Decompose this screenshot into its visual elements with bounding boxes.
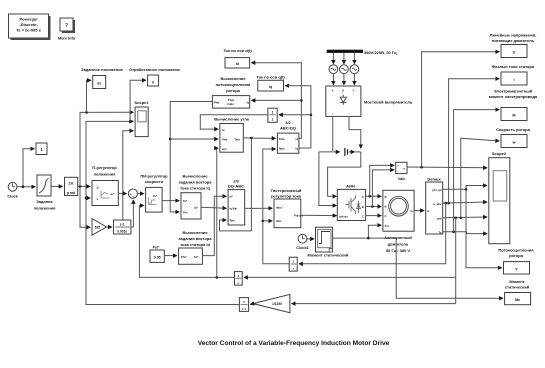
svg-text:iabc: iabc (276, 219, 282, 223)
svg-text:B: B (342, 90, 344, 93)
svg-text:скорости: скорости (145, 179, 164, 184)
svg-text:Момент: Момент (509, 279, 524, 284)
svg-text:wm: wm (221, 147, 227, 151)
svg-text:ПИ-регулятор: ПИ-регулятор (140, 174, 168, 179)
svg-text:w: w (512, 141, 516, 145)
svg-text:Mc: Mc (515, 298, 520, 302)
svg-text:Demux: Demux (427, 176, 441, 181)
svg-text:П-регулятор: П-регулятор (92, 165, 117, 170)
svg-text:Scope2: Scope2 (492, 151, 507, 156)
svg-text:Потокосцепления: Потокосцепления (498, 248, 534, 253)
svg-text:0.001s: 0.001s (117, 229, 127, 233)
svg-text:A: A (332, 90, 334, 93)
svg-text:1/1250: 1/1250 (272, 302, 282, 306)
svg-text:pulses: pulses (339, 215, 348, 219)
svg-text:Асинхронный: Асинхронный (384, 235, 412, 240)
svg-text:статический: статический (505, 285, 530, 290)
svg-text:Мостовой выпрямитель: Мостовой выпрямитель (364, 100, 413, 105)
svg-text:id: id (236, 62, 239, 66)
svg-text:id: id (296, 137, 299, 141)
svg-text:Ts = 2e-005 s: Ts = 2e-005 s (16, 28, 41, 33)
svg-text:Ток по оси q(t): Ток по оси q(t) (256, 75, 285, 80)
svg-text:АИН: АИН (346, 183, 355, 188)
svg-text:A: A (385, 195, 387, 199)
svg-text:θ: θ (152, 81, 154, 85)
svg-text:задания вектора: задания вектора (179, 180, 213, 185)
svg-text:iq: iq (296, 147, 299, 151)
svg-text:Phi*: Phi* (181, 255, 187, 259)
svg-text:is_abc: is_abc (433, 202, 442, 206)
svg-text:регулятор тока: регулятор тока (271, 194, 302, 199)
svg-text:Фазные токи статора: Фазные токи статора (492, 64, 535, 69)
svg-text:Vector Control of a Variable-F: Vector Control of a Variable-Frequency I… (198, 340, 390, 347)
svg-text:iq*&th: iq*&th (230, 207, 238, 211)
svg-text:Phir: Phir (222, 138, 228, 142)
svg-text:Отработанное положение: Отработанное положение (129, 67, 181, 72)
svg-text:Линейные напряжения,: Линейные напряжения, (490, 33, 537, 38)
svg-text:Tm: Tm (385, 224, 390, 228)
svg-text:T: T (243, 300, 245, 304)
svg-text:C: C (362, 215, 364, 219)
svg-text:положения: положения (34, 206, 57, 211)
svg-text:ротора: ротора (509, 253, 524, 258)
svg-text:DQ-ABC: DQ-ABC (228, 184, 244, 189)
svg-text:Powergui: Powergui (19, 17, 37, 22)
svg-text:положения: положения (94, 172, 117, 177)
svg-text:B: B (362, 205, 364, 209)
svg-text:Calc.: Calc. (227, 102, 234, 106)
svg-text:C: C (385, 214, 387, 218)
svg-text:Clock: Clock (7, 195, 18, 199)
svg-text:тока статора Iq: тока статора Iq (180, 186, 210, 191)
svg-text:U: U (513, 51, 516, 55)
svg-text:Скорость ротора: Скорость ротора (496, 127, 530, 132)
svg-text:Вычисление: Вычисление (182, 230, 208, 235)
svg-text:A: A (362, 195, 364, 199)
svg-text:Вычисление угла: Вычисление угла (214, 117, 250, 122)
svg-text:50 Гц / 380 V: 50 Гц / 380 V (386, 248, 410, 253)
svg-text:Задание: Задание (36, 199, 53, 204)
svg-text:id*: id* (230, 195, 233, 199)
svg-text:625: 625 (95, 226, 101, 230)
svg-text:питающие двигатель: питающие двигатель (492, 38, 535, 43)
svg-text:p.rad: p.rad (67, 191, 75, 195)
svg-text:Psi*: Psi* (153, 246, 160, 250)
svg-text:задания вектора: задания вектора (179, 236, 213, 241)
svg-text:Гистерезисный: Гистерезисный (271, 188, 302, 193)
svg-text:iq: iq (246, 101, 249, 105)
svg-text:3/2: 3/2 (285, 120, 291, 125)
svg-text:Вычисление: Вычисление (182, 174, 208, 179)
svg-text:двигатель: двигатель (388, 242, 409, 247)
svg-text:?: ? (65, 23, 68, 29)
svg-text:Teta: Teta (234, 138, 240, 142)
svg-text:Phi: Phi (183, 211, 188, 215)
svg-text:z-1: z-1 (120, 223, 125, 227)
svg-text:C: C (353, 90, 355, 93)
svg-text:Y: Y (515, 268, 518, 272)
svg-text:i: i (513, 78, 514, 82)
svg-text:Teta: Teta (279, 137, 285, 141)
svg-text:−: − (133, 195, 135, 199)
svg-text:M: M (512, 114, 515, 118)
svg-text:1: 1 (272, 110, 274, 114)
svg-text:тока статора Id: тока статора Id (180, 242, 210, 247)
svg-text:Iabc: Iabc (279, 147, 285, 151)
svg-text:Phir: Phir (214, 101, 220, 105)
svg-text:ABC-DQ: ABC-DQ (280, 126, 296, 131)
svg-text:+: + (130, 192, 132, 196)
svg-text:z-1: z-1 (242, 307, 246, 311)
svg-text:Teta: Teta (230, 218, 236, 222)
svg-text:Электромагнитный: Электромагнитный (494, 88, 533, 93)
svg-text:2π: 2π (68, 181, 73, 186)
svg-text:More Info: More Info (58, 37, 76, 41)
svg-text:Clock1: Clock1 (296, 246, 308, 250)
svg-text:Заданное положение: Заданное положение (81, 67, 124, 72)
svg-text:Вычисление: Вычисление (220, 76, 246, 81)
svg-text:380V/220В, 50 Гц: 380V/220В, 50 Гц (364, 50, 397, 55)
svg-text:phi_qd: phi_qd (432, 188, 441, 192)
svg-text:B: B (385, 204, 387, 208)
svg-text:момент электропривода: момент электропривода (489, 94, 538, 99)
svg-text:wm: wm (436, 217, 442, 221)
svg-text:Ток по оси d(t): Ток по оси d(t) (223, 48, 252, 53)
svg-text:Iq: Iq (222, 128, 225, 132)
svg-text:потокосцепления: потокосцепления (216, 82, 251, 87)
svg-text:Момент статический: Момент статический (307, 253, 348, 258)
svg-text:iabc*: iabc* (276, 206, 284, 210)
svg-text:ротора: ротора (226, 88, 241, 93)
svg-text:θз: θз (97, 82, 101, 86)
svg-text:Scope1: Scope1 (134, 100, 149, 105)
svg-text:-Discrete,: -Discrete, (19, 22, 37, 27)
svg-text:0.05: 0.05 (154, 256, 161, 260)
svg-text:iq: iq (269, 85, 272, 89)
svg-text:Te: Te (438, 230, 442, 234)
svg-text:Flux: Flux (228, 98, 234, 102)
svg-text:Vab: Vab (398, 177, 405, 181)
